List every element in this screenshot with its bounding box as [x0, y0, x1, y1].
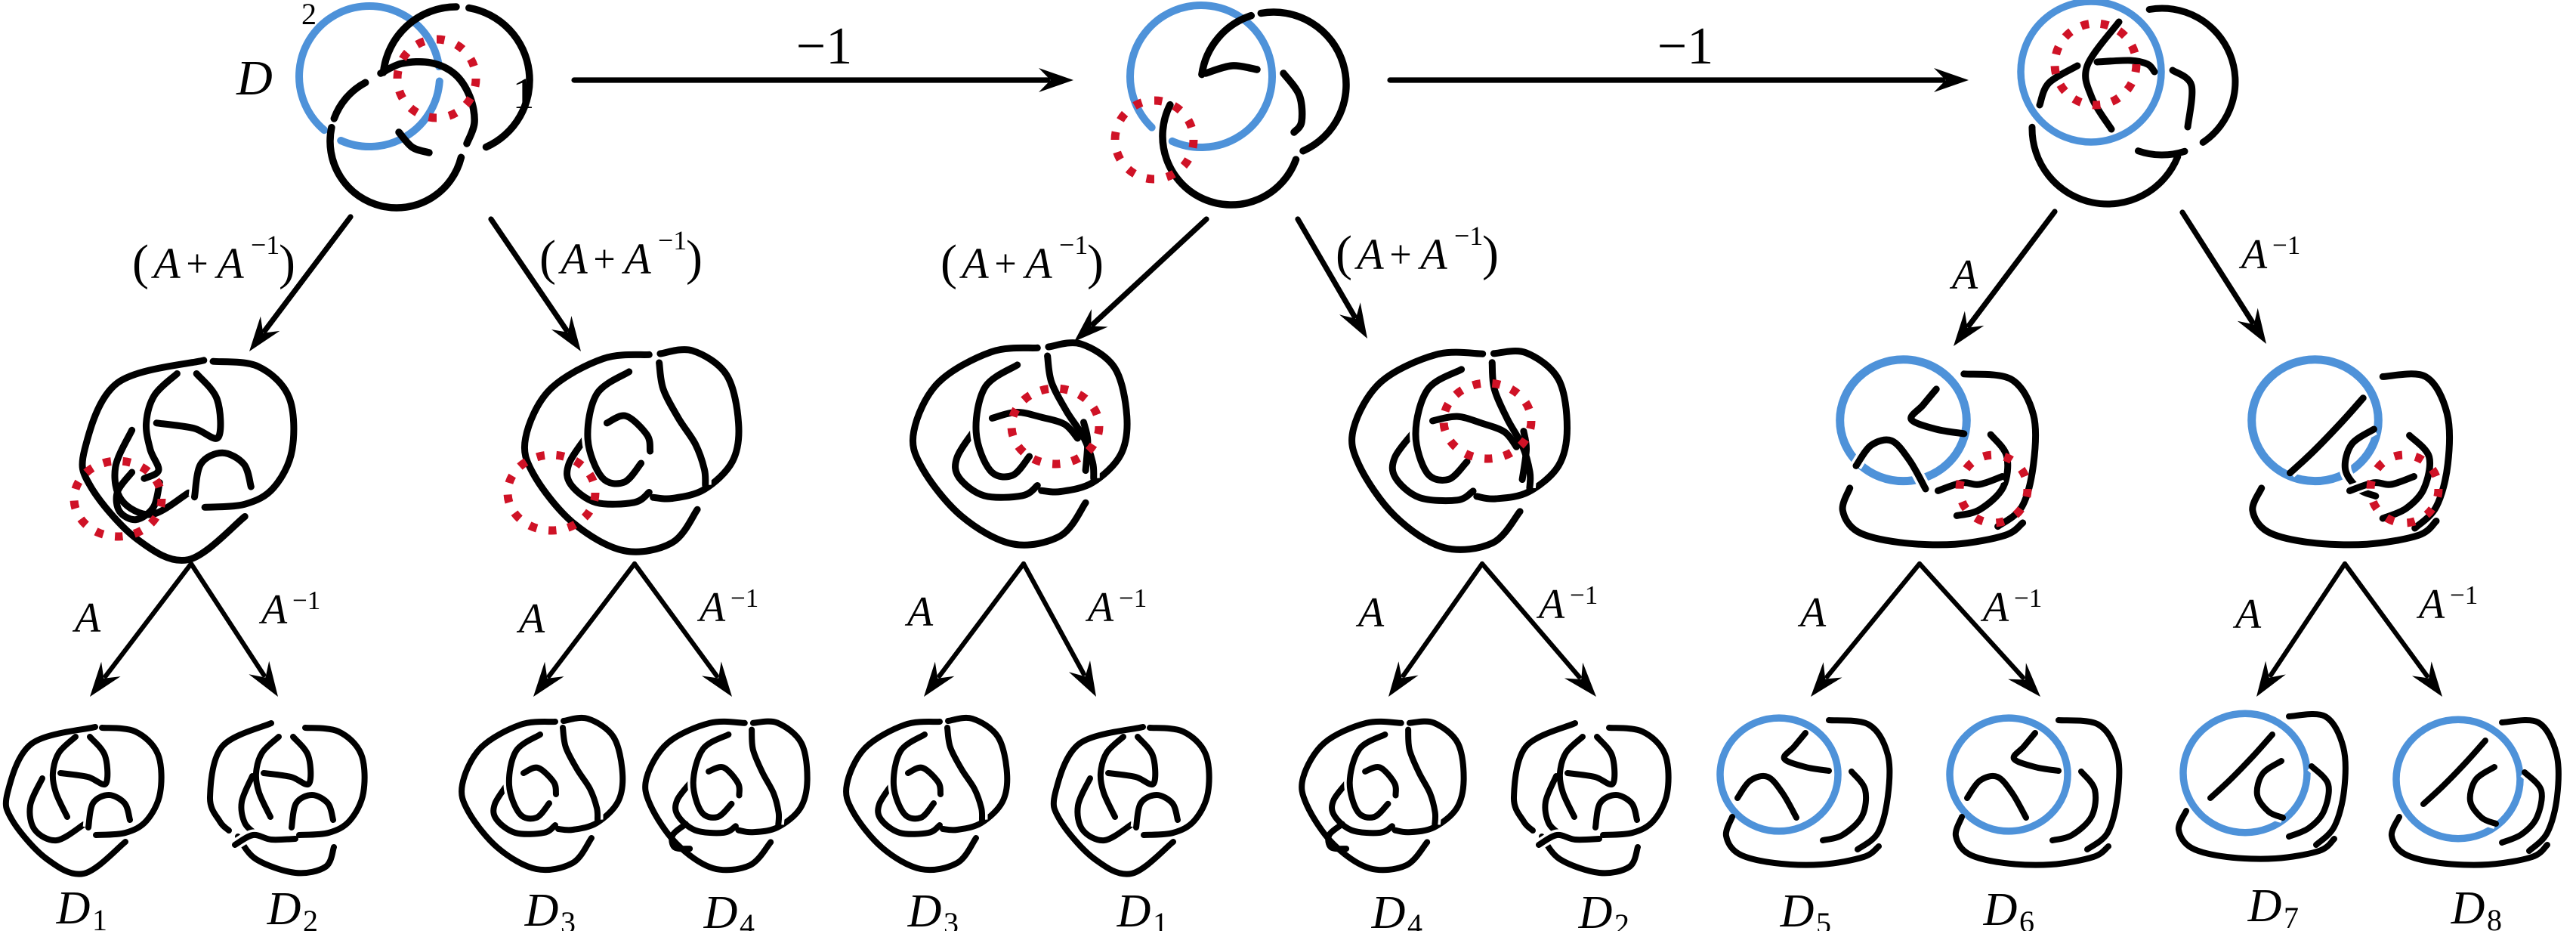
- svg-text:A: A: [2238, 231, 2268, 278]
- svg-text:A: A: [1355, 589, 1385, 636]
- svg-text:(: (: [941, 235, 957, 290]
- svg-text:−1: −1: [2014, 583, 2042, 613]
- svg-text:A: A: [1949, 252, 1978, 298]
- svg-text:7: 7: [2284, 901, 2299, 931]
- svg-text:D: D: [56, 883, 91, 931]
- leaf knot D2 (position 2): [210, 723, 271, 830]
- svg-text:4: 4: [740, 908, 755, 931]
- svg-text:D: D: [703, 887, 738, 931]
- svg-text:−1: −1: [658, 225, 687, 255]
- row-2 knot 3 (smoothing, red circle upper-right): [913, 348, 1086, 545]
- red dotted circle of top-right knot: [2055, 23, 2136, 105]
- svg-text:2: 2: [301, 0, 317, 31]
- svg-text:(: (: [1336, 226, 1352, 281]
- arrow (A+A^-1) from D to row-2 knot 1: [265, 217, 351, 330]
- arrow A from top-right knot to row-2 knot 5: [1969, 212, 2055, 325]
- svg-text:D: D: [236, 51, 273, 106]
- blue ring of top-middle knot: [1130, 5, 1272, 147]
- svg-text:−1: −1: [1454, 221, 1483, 251]
- leaf knot D4 (position 7): [1302, 722, 1427, 870]
- red dotted circle of row-2 knot 3: [1012, 388, 1099, 464]
- svg-text:D: D: [1117, 886, 1151, 931]
- svg-text:A: A: [1536, 581, 1565, 628]
- svg-text:A: A: [1354, 230, 1384, 279]
- leaf knot D3 (position 3): [462, 722, 591, 870]
- svg-text:+: +: [1389, 234, 1411, 277]
- arrow A^-1 from row-2 knot 2 to leaf 4: [635, 564, 717, 676]
- svg-text:A: A: [959, 239, 989, 288]
- svg-text:A: A: [697, 584, 726, 631]
- black inner hook of top-middle knot: [1283, 73, 1302, 132]
- svg-text:−1: −1: [796, 17, 852, 76]
- black inner ring of knot D: [381, 62, 474, 144]
- svg-text:A: A: [258, 586, 288, 633]
- svg-text:2: 2: [1614, 908, 1629, 931]
- svg-text:6: 6: [2019, 905, 2034, 931]
- leaf knot D1 (position 6): [1054, 727, 1173, 874]
- leaf knot D3 (position 5): [846, 722, 976, 870]
- svg-text:D: D: [1578, 887, 1613, 931]
- svg-text:+: +: [994, 243, 1016, 286]
- black top-right ring of top-right knot: [2149, 8, 2235, 142]
- leaf knot D5 (position 9): [1720, 718, 1838, 831]
- svg-text:−1: −1: [1657, 17, 1713, 76]
- black top-right ring of knot D: [469, 8, 530, 147]
- svg-text:): ): [1482, 226, 1499, 281]
- arrow -1 from D to second diagram: [574, 77, 1048, 82]
- black top-right ring of top-middle knot: [1202, 16, 1251, 75]
- black bottom ring of top-right knot: [2032, 127, 2178, 204]
- arrow (A+A^-1) from top-middle knot to row-2 knot 3: [1093, 219, 1206, 324]
- leaf knot D6 (position 10): [1950, 718, 2068, 831]
- svg-text:(: (: [132, 235, 149, 290]
- svg-text:D: D: [907, 886, 942, 931]
- svg-text:5: 5: [1816, 906, 1831, 931]
- inner S strand of top-right knot: [2086, 22, 2119, 129]
- leaf knot D7 (position 11): [2183, 713, 2307, 832]
- blue ring of top-right knot: [2021, 2, 2161, 142]
- svg-text:A: A: [1022, 239, 1052, 288]
- red dotted circle of row-2 knot 6: [2371, 455, 2439, 523]
- svg-text:−1: −1: [2450, 580, 2478, 610]
- svg-text:A: A: [516, 595, 545, 642]
- svg-text:1: 1: [92, 903, 107, 931]
- arrow A from row-2 knot 6 to leaf 11: [2271, 564, 2345, 675]
- black bottom ring of top-middle knot: [1163, 105, 1296, 205]
- red dotted circle: crossing 1 of knot D: [397, 39, 476, 118]
- row-2 knot 2 (smoothing of D, red circle lower-left): [524, 354, 697, 552]
- blue ring (strand 2) of knot D: [341, 82, 440, 147]
- svg-text:8: 8: [2487, 903, 2502, 931]
- svg-text:−1: −1: [2272, 230, 2300, 260]
- leaf knot D1 (position 1): [6, 727, 125, 874]
- black inner bar of top-middle knot: [1206, 66, 1257, 73]
- arrow A^-1 from row-2 knot 1 to leaf 2: [191, 564, 264, 675]
- svg-text:A: A: [2416, 581, 2445, 628]
- svg-text:1: 1: [513, 69, 535, 118]
- svg-text:(: (: [539, 230, 556, 286]
- leaf knot D8 (position 12): [2396, 719, 2520, 838]
- svg-text:D: D: [1371, 887, 1406, 931]
- svg-text:3: 3: [561, 905, 576, 931]
- svg-text:D: D: [524, 885, 559, 931]
- inner horizontal strand of top-right knot: [2097, 60, 2154, 72]
- arrow A^-1 from row-2 knot 4 to leaf 8: [1482, 564, 1580, 677]
- row-2 knot 6 (blue strand, red circle lower-right): [2252, 360, 2379, 481]
- arrow (A+A^-1) from top-middle knot to row-2 knot 4: [1298, 219, 1354, 316]
- svg-text:+: +: [593, 238, 615, 281]
- svg-text:): ): [686, 230, 703, 286]
- leaf knot D4 (position 4): [645, 722, 771, 870]
- arrow A^-1 from row-2 knot 3 to leaf 6: [1024, 564, 1084, 674]
- svg-text:A: A: [904, 589, 934, 636]
- svg-text:A: A: [214, 239, 244, 288]
- svg-text:−1: −1: [292, 586, 320, 615]
- svg-text:D: D: [267, 883, 301, 931]
- svg-text:D: D: [1983, 884, 2018, 931]
- svg-text:): ): [279, 235, 295, 290]
- arrow A from row-2 knot 5 to leaf 9: [1827, 564, 1920, 676]
- arrow A^-1 from row-2 knot 5 to leaf 10: [1920, 564, 2023, 678]
- red dotted circle of row-2 knot 2: [508, 455, 595, 530]
- svg-text:D: D: [2451, 883, 2485, 931]
- svg-text:−1: −1: [1119, 583, 1147, 613]
- svg-text:D: D: [1780, 886, 1815, 931]
- red dotted circle of row-2 knot 5: [1960, 455, 2028, 523]
- inner right hook of top-right knot: [2173, 70, 2192, 127]
- arrow A from row-2 knot 4 to leaf 7: [1404, 564, 1482, 676]
- red dotted circle of row-2 knot 1: [74, 461, 162, 537]
- svg-text:A: A: [150, 239, 181, 288]
- svg-text:1: 1: [1153, 906, 1168, 931]
- inner left hook of top-right knot: [2040, 66, 2077, 105]
- red dotted circle: crossing 2 of top-middle knot: [1115, 101, 1194, 179]
- svg-text:A: A: [2232, 591, 2262, 638]
- svg-text:A: A: [1417, 230, 1447, 279]
- svg-text:A: A: [1980, 584, 2009, 631]
- svg-text:A: A: [1797, 589, 1827, 636]
- svg-text:A: A: [621, 234, 651, 283]
- svg-text:+: +: [186, 243, 208, 286]
- svg-text:A: A: [1085, 584, 1114, 631]
- svg-text:A: A: [558, 234, 588, 283]
- arrow A^-1 from top-right knot to row-2 knot 6: [2182, 212, 2252, 322]
- arrow -1 from second to third diagram: [1390, 77, 1943, 82]
- svg-text:3: 3: [944, 906, 959, 931]
- arrow A from row-2 knot 2 to leaf 3: [549, 564, 635, 676]
- arrow (A+A^-1) from D to row-2 knot 2: [491, 219, 567, 330]
- svg-text:−1: −1: [251, 230, 280, 260]
- black bottom ring of knot D: [330, 128, 461, 208]
- row-2 knot 5 (blue strand, red circle lower-right): [1840, 360, 1967, 481]
- arrow A^-1 from row-2 knot 6 to leaf 12: [2345, 564, 2427, 676]
- svg-text:4: 4: [1407, 908, 1422, 931]
- svg-text:−1: −1: [730, 583, 758, 613]
- svg-text:−1: −1: [1570, 580, 1598, 610]
- svg-text:−1: −1: [1059, 230, 1088, 260]
- svg-text:A: A: [72, 595, 101, 642]
- red dotted circle of row-2 knot 4: [1444, 383, 1531, 459]
- svg-text:2: 2: [303, 904, 318, 931]
- svg-text:): ): [1087, 235, 1104, 290]
- svg-text:D: D: [2247, 880, 2282, 931]
- arrow A from row-2 knot 1 to leaf 1: [106, 564, 191, 676]
- row-2 knot 4 (smoothing, red circle upper-right): [1352, 352, 1521, 549]
- row-2 knot 1 (smoothing of D, red circle lower-left): [82, 360, 245, 561]
- arrow A from row-2 knot 3 to leaf 5: [940, 564, 1024, 676]
- leaf knot D2 (position 8): [1514, 723, 1575, 830]
